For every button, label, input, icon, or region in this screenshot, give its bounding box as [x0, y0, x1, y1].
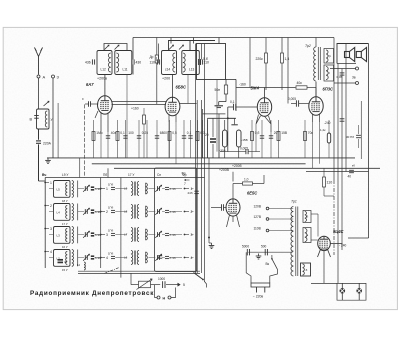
svg-text:430: 430 — [136, 60, 142, 64]
component under tubes x101 — [100, 120, 102, 158]
osc ground — [215, 102, 227, 108]
svg-text:Н: Н — [163, 296, 166, 300]
capacitor 24b — [188, 191, 199, 195]
wire can B down — [187, 75, 189, 104]
tuning arrows can A — [105, 45, 120, 50]
svg-text:Тр2: Тр2 — [305, 44, 311, 48]
V2 pins — [169, 114, 176, 122]
svg-text:127В: 127В — [254, 215, 261, 219]
component under tubes x190.5 — [188, 120, 192, 158]
svg-text:1Мо: 1Мо — [96, 131, 102, 135]
svg-text:Вч: Вч — [42, 173, 46, 177]
electrolytic +15v — [237, 130, 248, 158]
bank row 4 coil B outer — [62, 249, 78, 272]
svg-text:50н: 50н — [215, 88, 221, 92]
svg-text:L2: L2 — [77, 263, 81, 267]
tuning arrows can B — [169, 45, 184, 50]
terminal Zv1 — [356, 67, 359, 70]
bank row 1 trimmer2 — [155, 185, 161, 192]
bank row 1 coil E — [146, 183, 148, 194]
svg-text:0,005: 0,005 — [240, 147, 248, 151]
svg-text:220А: 220А — [43, 142, 52, 146]
bank row 3 cap mid — [108, 229, 115, 236]
bank row 4 contact left — [44, 250, 52, 254]
svg-text:1,4: 1,4 — [285, 57, 290, 61]
V6 wires — [311, 214, 331, 283]
bank rail left — [44, 178, 46, 269]
can A bracket — [104, 44, 133, 75]
svg-text:40: 40 — [348, 175, 352, 179]
bank row 1 cap mid — [108, 183, 115, 190]
bank row 3 contact mid — [100, 233, 108, 237]
bank row 2 coil C — [124, 205, 139, 219]
wire v1 bottom — [101, 120, 108, 132]
capacitor 0.005 V4 — [288, 97, 309, 107]
IF can B loop1 — [162, 51, 177, 75]
input circuit L1/C1 loop — [37, 109, 50, 129]
svg-text:16 У: 16 У — [62, 245, 68, 249]
svg-text:3: 3 — [106, 233, 108, 237]
ground sym left — [45, 158, 51, 164]
svg-text:L12: L12 — [101, 68, 107, 72]
bank row 1 trimmer — [83, 185, 89, 192]
Tr1 sec box2 — [303, 228, 311, 243]
svg-text:4: 4 — [191, 256, 193, 260]
component under tubes x147 — [146, 120, 148, 158]
caption — [30, 290, 154, 297]
svg-text:А: А — [43, 75, 46, 80]
bank row 3 coil A — [54, 227, 71, 244]
bank row 4 contact mid — [100, 256, 108, 260]
bank row 1 contact right — [184, 187, 193, 191]
component under tubes x169.5 — [168, 120, 177, 158]
coil L13 — [183, 53, 195, 72]
svg-text:220к: 220к — [256, 57, 264, 61]
bank row 3 coil C — [124, 228, 139, 242]
label +240 — [331, 243, 347, 247]
label -240 — [324, 121, 331, 125]
label Tr1 — [291, 200, 297, 204]
bank row 1 wire — [49, 188, 194, 190]
vline x209 — [208, 158, 210, 243]
wire x84 avc — [83, 104, 85, 177]
svg-text:L9 У: L9 У — [62, 173, 69, 177]
component under tubes x184 — [182, 120, 192, 158]
svg-text:- 240: - 240 — [339, 244, 346, 248]
svg-text:100: 100 — [128, 131, 134, 135]
vline x334 — [333, 38, 335, 256]
bank row 3 contact left — [44, 227, 52, 231]
terminal Zv2 — [352, 76, 359, 85]
bank row 1 coil B outer — [62, 181, 78, 204]
bank enclosure — [155, 168, 197, 272]
switch lever — [194, 273, 207, 288]
svg-text:3: 3 — [50, 227, 52, 231]
bank row 2 contact right — [184, 210, 193, 214]
rect out wire — [348, 237, 369, 239]
wire y83 — [334, 82, 356, 84]
V5 pins — [227, 215, 240, 227]
coil L14 — [165, 53, 175, 72]
label 220v — [253, 295, 264, 299]
bank row 1 contact mid — [100, 187, 108, 191]
wire v2 bottom — [169, 122, 176, 164]
svg-text:З: З — [306, 268, 308, 272]
svg-text:30 Пб: 30 Пб — [346, 135, 354, 139]
plug wires — [246, 252, 277, 283]
wire v4 bottom — [313, 122, 320, 168]
speaker right — [356, 48, 366, 62]
bank row 2 cap val2 — [165, 210, 176, 214]
component under tubes x197.5 — [196, 120, 205, 158]
mains ground — [256, 254, 262, 260]
vline x368 — [368, 44, 370, 239]
vline x342 — [341, 69, 343, 251]
V2 plate wire — [179, 103, 196, 105]
svg-text:II: II — [328, 71, 330, 75]
V2 anode lead — [172, 75, 174, 98]
label N — [163, 296, 166, 300]
component under tubes x207.5 — [207, 120, 209, 158]
speaker box — [337, 44, 369, 64]
svg-text:Вк: Вк — [266, 262, 270, 266]
svg-text:Сн: Сн — [157, 173, 161, 177]
capacitor 5000 — [242, 245, 250, 256]
resistor 110 right — [323, 168, 335, 196]
mains terminal 120 — [254, 204, 294, 210]
bank row 2 coil B outer — [62, 204, 78, 227]
svg-text:L11: L11 — [123, 68, 128, 72]
svg-text:L5: L5 — [57, 188, 61, 192]
svg-text:L4: L4 — [57, 211, 61, 215]
bank row 4 cap val2 — [165, 256, 176, 260]
svg-text:+160: +160 — [131, 107, 139, 111]
svg-text:17 У: 17 У — [62, 222, 68, 226]
bank bottom caps — [58, 256, 163, 264]
svg-text:6800: 6800 — [160, 131, 167, 135]
bank row 3 trimmer — [83, 231, 89, 238]
svg-text:6Б8С: 6Б8С — [176, 85, 186, 90]
svg-text:L13: L13 — [189, 68, 195, 72]
svg-text:0,1: 0,1 — [230, 100, 235, 104]
choke Dr — [150, 38, 159, 105]
wire drop x288 — [287, 38, 289, 104]
svg-text:с14: с14 — [165, 68, 170, 72]
svg-text:1000: 1000 — [158, 277, 165, 281]
bank row 4 trimmer — [83, 254, 89, 261]
bank row 3 coil B outer — [62, 227, 78, 250]
component under tubes x262 — [260, 120, 264, 158]
resistor 1.2k — [320, 120, 331, 158]
wire v3 bottom — [256, 124, 271, 152]
capacitor 436 — [85, 59, 95, 64]
svg-text:500: 500 — [261, 245, 267, 249]
component under tubes x108 — [106, 120, 117, 158]
plug body — [251, 283, 270, 293]
bank row 4 coil E — [146, 252, 148, 263]
top bus — [133, 37, 334, 39]
svg-text:+15В: +15В — [241, 138, 248, 142]
cap 40 — [348, 164, 356, 179]
svg-text:1Пб: 1Пб — [108, 229, 114, 233]
svg-text:~ 220в: ~ 220в — [253, 295, 264, 299]
ground bus left — [47, 157, 355, 159]
capacitor 20.0 electrolytic — [205, 118, 216, 158]
coil L12 — [101, 53, 111, 72]
mains wire — [248, 251, 292, 253]
label +200 B — [162, 77, 170, 81]
mech link dashdot — [104, 268, 118, 274]
bank row 1 coil A — [54, 181, 71, 198]
svg-text:110: 110 — [327, 180, 333, 184]
wire x79 — [79, 158, 81, 178]
mains terminal 110 — [254, 226, 294, 232]
bank row 2 coil A — [54, 204, 71, 221]
svg-text:2: 2 — [50, 204, 52, 208]
svg-text:5: 5 — [183, 283, 185, 287]
switch shaft a — [196, 44, 198, 274]
V4 anode lead — [315, 82, 317, 97]
svg-text:L3: L3 — [57, 234, 61, 238]
capacitor 110 — [150, 59, 160, 64]
terminal A — [37, 75, 46, 80]
bank row 3 coil E — [146, 229, 148, 240]
label Tr2 — [305, 44, 311, 48]
wire +200 to V5 — [219, 168, 233, 182]
osc lower wires — [203, 109, 237, 158]
bank row 4 coil C — [124, 251, 139, 265]
component under tubes x125.5 — [123, 120, 134, 158]
svg-text:Фр: Фр — [182, 172, 186, 176]
svg-text:2: 2 — [106, 210, 108, 214]
lamp loop — [311, 283, 366, 300]
pickup terminal 1 — [157, 296, 160, 299]
bank top wire — [45, 168, 204, 177]
bank row 2 cap val — [91, 210, 101, 214]
svg-text:0,б: 0,б — [255, 131, 260, 135]
svg-text:Гр: Гр — [328, 54, 331, 58]
switch shaft b — [202, 44, 205, 283]
bus riser x193 — [193, 38, 195, 44]
label 5Ts4S — [333, 229, 344, 234]
svg-text:1: 1 — [106, 187, 108, 191]
svg-text:110: 110 — [150, 60, 156, 64]
component under tubes x157 — [155, 120, 167, 158]
wire y171.5 — [306, 171, 369, 173]
capacitor 220 — [36, 129, 52, 181]
svg-text:5Ц4С: 5Ц4С — [333, 229, 344, 234]
svg-text:б·3б: б·3б — [170, 233, 176, 237]
bank row 3 cap val2 — [165, 233, 176, 237]
bank row 1 cap val — [91, 187, 101, 191]
antenna W1 — [35, 48, 43, 75]
right box vertical — [360, 101, 362, 159]
svg-text:120В: 120В — [254, 204, 261, 208]
volume pot — [137, 279, 153, 290]
svg-text:15В: 15В — [281, 131, 287, 135]
svg-text:0,б: 0,б — [203, 57, 208, 61]
capacitor can B right — [200, 59, 209, 64]
cap 0.005 on bus — [220, 147, 260, 155]
component under tubes x219 — [218, 120, 220, 158]
svg-text:б·3б: б·3б — [170, 210, 176, 214]
bank row 1 coil C — [124, 182, 139, 196]
capacitor 30pf — [346, 125, 361, 148]
svg-text:+200В: +200В — [219, 168, 230, 172]
bank row 3 cap val — [91, 233, 101, 237]
svg-text:4: 4 — [50, 250, 52, 254]
svg-text:0,1: 0,1 — [120, 131, 125, 135]
wire cap to contact5 — [166, 283, 185, 287]
V4 pins — [313, 114, 320, 123]
component under tubes x117.5 — [116, 120, 125, 158]
bank row 2 cap mid — [108, 206, 115, 213]
V5 grid cap — [211, 204, 227, 210]
svg-text:-160: -160 — [239, 83, 246, 87]
pilot lamp 1 — [340, 283, 346, 300]
minus160 wire — [236, 83, 296, 88]
svg-text:18 У: 18 У — [62, 199, 68, 203]
V1 pins — [95, 111, 108, 120]
svg-text:6А7: 6А7 — [86, 82, 94, 87]
coil L1 — [44, 101, 54, 127]
capacitor right col2 — [340, 119, 345, 121]
bank row 4 cap mid — [108, 252, 115, 259]
svg-text:40к: 40к — [297, 81, 303, 85]
svg-text:7: 7 — [184, 182, 186, 186]
V1 grid cap — [82, 97, 98, 107]
wire bank to pot — [131, 273, 139, 284]
wire antenna down — [38, 78, 40, 109]
capacitor 430 — [132, 59, 141, 64]
tube V2 6B8S — [165, 85, 186, 116]
component under tubes x278.5 — [277, 120, 287, 158]
tube V3 6Zh4 — [251, 86, 272, 117]
svg-text:+200б: +200б — [232, 164, 242, 168]
Tr1 sec box1 — [303, 211, 311, 223]
component under tubes x271 — [269, 120, 278, 158]
wire y68.5 — [330, 68, 356, 70]
svg-text:Тр1: Тр1 — [291, 200, 297, 204]
bank row 4 contact right — [184, 256, 193, 260]
svg-text:1: 1 — [50, 181, 52, 185]
component under tubes x202.5 — [202, 120, 204, 158]
bank row 4 wire — [49, 257, 194, 259]
tube V1 6A7 — [86, 82, 112, 114]
wire x58 — [57, 103, 59, 158]
terminal G — [52, 75, 60, 80]
component under tubes x252 — [251, 120, 260, 158]
wire pot to cap — [151, 284, 161, 286]
Tr2 primary — [314, 47, 316, 81]
svg-text:Др: Др — [150, 55, 154, 59]
can B bracket — [159, 41, 216, 60]
resistor left of V2 — [143, 108, 146, 158]
svg-text:+200: +200 — [162, 77, 170, 81]
bus y163.8 — [92, 163, 306, 165]
resistor 1.0 V5 — [233, 175, 264, 185]
svg-text:1Пб: 1Пб — [108, 206, 114, 210]
vline x338 — [337, 64, 339, 284]
svg-text:1,2к: 1,2к — [320, 128, 326, 132]
Tr1 sec box3 — [301, 263, 311, 276]
svg-text:24б: 24б — [188, 191, 193, 195]
V5 anode lead — [232, 184, 234, 200]
svg-text:6Е5С: 6Е5С — [247, 191, 257, 196]
bank row 2 coil E — [146, 206, 148, 217]
svg-text:б·3б: б·3б — [170, 187, 176, 191]
svg-text:20: 20 — [205, 133, 209, 137]
component under tubes x93.5 — [92, 120, 103, 158]
svg-text:1Пб: 1Пб — [108, 183, 114, 187]
bus riser x219 — [218, 38, 220, 44]
tube V5 6E5S — [226, 199, 240, 216]
bank header — [42, 173, 187, 177]
bank row 2 contact mid — [100, 210, 108, 214]
bank row 3 wire — [49, 234, 194, 236]
coil L11 — [116, 53, 128, 72]
electrolytic +35v — [219, 120, 228, 158]
bank row 4 trimmer2 — [155, 254, 161, 261]
bank row 4 cap val — [91, 256, 101, 260]
pickup corner — [171, 288, 176, 298]
resistor 40k — [296, 81, 316, 97]
bus riser x133 — [132, 38, 134, 44]
tube V6 5Ts4S — [318, 236, 331, 250]
bus riser x171 — [170, 38, 172, 44]
component under tubes x139 — [137, 120, 148, 158]
bank row 3 contact right — [184, 233, 193, 237]
V3 pins — [256, 115, 271, 125]
svg-text:0,005: 0,005 — [288, 97, 296, 101]
svg-text:2: 2 — [191, 210, 193, 214]
bank row 3 trimmer2 — [155, 231, 161, 238]
oscillator box — [197, 44, 237, 112]
bus y168.3 — [114, 164, 380, 168]
svg-text:Пб: Пб — [103, 173, 107, 177]
pickup bracket — [155, 285, 157, 298]
IF can B loop2 — [182, 51, 200, 75]
bank coil L2 bottom — [77, 262, 85, 270]
label 6E5S — [247, 191, 257, 196]
bank row 4 coil A — [54, 250, 71, 267]
svg-text:-240: -240 — [324, 121, 331, 125]
capacitor C1 — [30, 116, 39, 122]
svg-text:17 У: 17 У — [128, 173, 135, 177]
label Fr — [182, 172, 190, 187]
pilot lamp 2 — [356, 283, 362, 300]
switch Vk — [266, 255, 278, 270]
svg-text:5Ж4: 5Ж4 — [251, 86, 260, 91]
Tr2 core — [318, 47, 320, 80]
bank rail mid2 — [120, 178, 122, 278]
bank rail mid1 — [100, 178, 102, 269]
Tr2 sec box1 — [324, 49, 334, 64]
capacitor 1000 — [158, 277, 165, 288]
tube V4 6P3S — [309, 87, 333, 116]
wire x217 down — [216, 80, 218, 152]
resistor 50k — [215, 80, 228, 102]
capacitor 500 — [261, 245, 267, 256]
capacitor right col — [337, 73, 345, 79]
svg-text:≡: ≡ — [82, 97, 84, 101]
speaker left — [345, 48, 355, 62]
svg-text:б·3б: б·3б — [170, 256, 176, 260]
wire ground terminal down — [52, 78, 54, 158]
bank bottom edge — [78, 271, 200, 273]
component under tubes x305 — [304, 120, 314, 158]
svg-text:4: 4 — [106, 256, 108, 260]
